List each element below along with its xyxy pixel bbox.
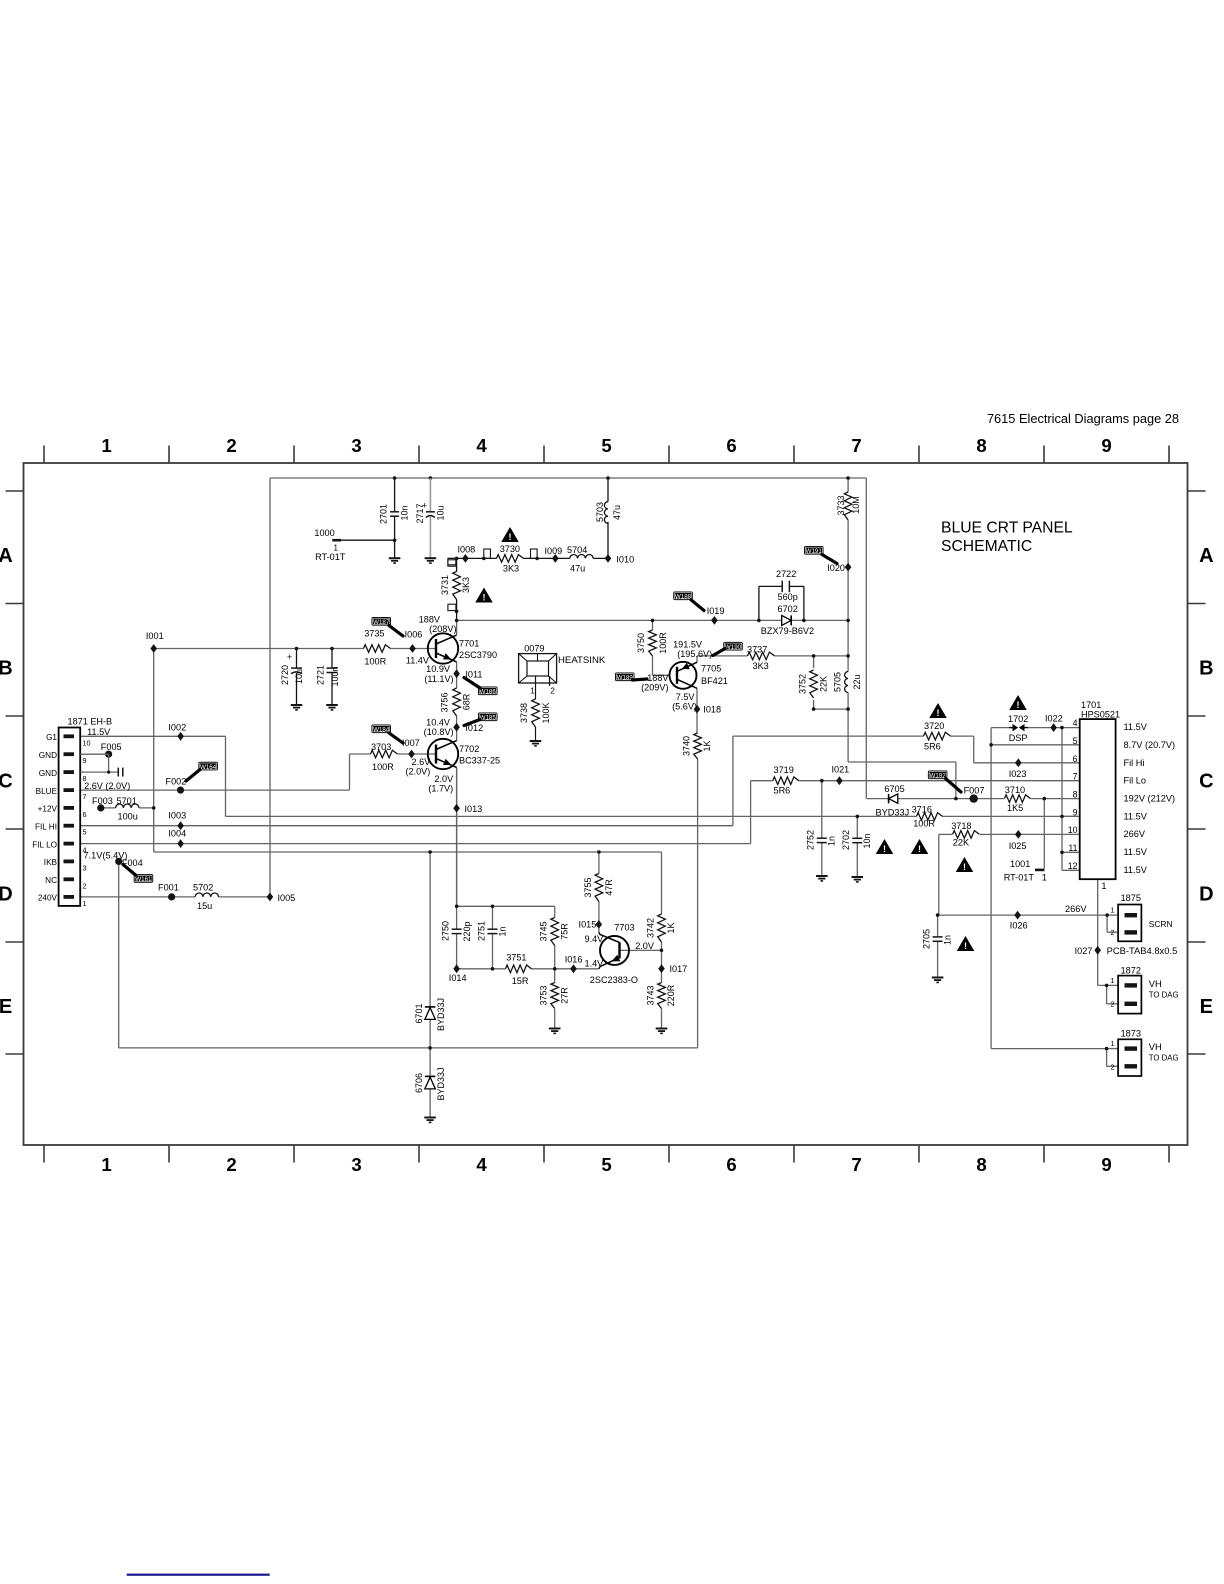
ground 3743 bbox=[656, 1028, 668, 1030]
svg-text:F002: F002 bbox=[166, 777, 187, 787]
svg-text:1n: 1n bbox=[827, 836, 837, 846]
1871 pin 3 IKB bbox=[64, 860, 75, 864]
svg-text:!: ! bbox=[1017, 700, 1020, 710]
svg-text:1K: 1K bbox=[702, 740, 712, 751]
svg-text:8: 8 bbox=[976, 1154, 986, 1175]
svg-text:W186: W186 bbox=[480, 689, 497, 696]
ground 2701 bbox=[389, 557, 401, 559]
flag W192 bbox=[928, 771, 948, 780]
inductor 5705 22u bbox=[847, 672, 850, 693]
wire 7705 emitter up bbox=[696, 656, 698, 663]
svg-text:+12V: +12V bbox=[38, 805, 58, 814]
wire BLUE row F002 bbox=[80, 789, 349, 791]
resistor 3750 100R bbox=[651, 630, 654, 656]
node I025 bbox=[1015, 830, 1022, 839]
node F005 bbox=[105, 751, 112, 758]
svg-text:22K: 22K bbox=[953, 837, 969, 847]
svg-text:SCRN: SCRN bbox=[1149, 919, 1173, 929]
svg-text:15u: 15u bbox=[197, 901, 212, 911]
resistor 3719 5R6 bbox=[773, 779, 799, 782]
svg-text:3K3: 3K3 bbox=[461, 577, 471, 593]
svg-text:RT-01T: RT-01T bbox=[315, 552, 346, 562]
resistor 3752 22K bbox=[812, 670, 815, 698]
node I020 bbox=[845, 563, 852, 572]
1701 pin 1 label bbox=[1097, 878, 1099, 880]
svg-text:2701: 2701 bbox=[378, 504, 388, 524]
jumper link b bbox=[531, 549, 538, 558]
svg-text:220p: 220p bbox=[462, 921, 472, 941]
svg-text:F003: F003 bbox=[92, 796, 113, 806]
svg-text:(209V): (209V) bbox=[641, 683, 668, 693]
svg-text:6: 6 bbox=[726, 1154, 736, 1175]
capacitor 2751 1n bbox=[488, 928, 498, 930]
wire 2752 drop from I021 rail bbox=[821, 781, 823, 839]
wire FIL HI riser bbox=[732, 736, 734, 826]
svg-text:HEATSINK: HEATSINK bbox=[558, 655, 606, 666]
svg-text:NC: NC bbox=[45, 876, 57, 885]
svg-text:6702: 6702 bbox=[778, 604, 798, 614]
svg-text:9: 9 bbox=[1101, 435, 1111, 456]
svg-text:(11.1V): (11.1V) bbox=[424, 674, 453, 684]
svg-text:7705: 7705 bbox=[701, 664, 721, 674]
node I009 bbox=[552, 554, 559, 563]
wire 2751 cap drop bbox=[492, 906, 494, 929]
svg-text:GND: GND bbox=[39, 751, 57, 760]
wire 3710 to pin8 bbox=[1031, 798, 1080, 800]
wire 7702 base row bbox=[350, 753, 437, 755]
wire 3750 drop bbox=[652, 620, 654, 675]
capacitor 2722 560p branch bbox=[757, 619, 761, 623]
node I022 bbox=[1050, 723, 1057, 732]
svg-text:1: 1 bbox=[101, 1154, 111, 1175]
svg-text:7: 7 bbox=[851, 1154, 861, 1175]
resistor 3730 3K3 bbox=[497, 557, 524, 560]
wire 240V top rail bbox=[270, 477, 866, 479]
resistor 3742 1K bbox=[660, 914, 663, 942]
node I010 bbox=[606, 556, 610, 560]
svg-text:1872: 1872 bbox=[1121, 966, 1141, 976]
svg-text:1: 1 bbox=[1111, 1039, 1115, 1048]
zener diode 6702 BZX79-B6V2 bbox=[782, 615, 792, 625]
svg-text:7701: 7701 bbox=[459, 638, 479, 648]
svg-text:1: 1 bbox=[83, 899, 87, 908]
svg-text:68R: 68R bbox=[461, 693, 471, 710]
svg-text:2702: 2702 bbox=[841, 830, 851, 850]
svg-text:2.0V: 2.0V bbox=[635, 941, 655, 951]
flag W161 bbox=[134, 874, 154, 883]
svg-text:1873: 1873 bbox=[1121, 1029, 1141, 1039]
svg-text:!: ! bbox=[963, 862, 966, 872]
svg-text:3750: 3750 bbox=[636, 633, 646, 653]
node I005 bbox=[267, 893, 274, 902]
resistor 3743 220R bbox=[660, 983, 663, 1009]
flag W191 bbox=[804, 546, 824, 555]
svg-text:3: 3 bbox=[351, 1154, 361, 1175]
flag W164 bbox=[198, 762, 218, 771]
svg-text:7.1V(5.4V): 7.1V(5.4V) bbox=[84, 851, 128, 861]
wire 3742 drop bbox=[661, 852, 663, 950]
capacitor 2720 10u bbox=[296, 649, 298, 669]
node F001 bbox=[168, 893, 175, 900]
svg-text:266V: 266V bbox=[1065, 904, 1087, 914]
svg-text:75R: 75R bbox=[560, 923, 570, 940]
wire DSP 1702 net bbox=[991, 727, 1009, 729]
flag W190 bbox=[723, 642, 743, 651]
svg-text:560p: 560p bbox=[778, 592, 798, 602]
node I012 10.4V bbox=[453, 723, 460, 732]
svg-text:W187: W187 bbox=[373, 619, 390, 626]
svg-text:7: 7 bbox=[851, 435, 861, 456]
svg-text:191.5V: 191.5V bbox=[673, 640, 703, 650]
svg-text:3: 3 bbox=[351, 435, 361, 456]
svg-text:BYD33J: BYD33J bbox=[876, 808, 910, 818]
svg-text:11.5V: 11.5V bbox=[1124, 865, 1148, 875]
node I007 bbox=[408, 750, 415, 759]
svg-text:4: 4 bbox=[476, 435, 487, 456]
svg-text:!: ! bbox=[483, 593, 486, 603]
capacitor 2721 100n bbox=[331, 649, 333, 669]
node I004 bbox=[177, 839, 184, 848]
svg-text:1n: 1n bbox=[942, 935, 952, 945]
svg-text:192V (212V): 192V (212V) bbox=[1124, 794, 1176, 804]
svg-text:(1.7V): (1.7V) bbox=[428, 784, 453, 794]
wire BLUE riser bbox=[349, 754, 351, 790]
svg-text:2: 2 bbox=[226, 435, 236, 456]
svg-text:3738: 3738 bbox=[519, 703, 529, 723]
node I003 bbox=[177, 821, 184, 830]
svg-text:100R: 100R bbox=[364, 657, 386, 667]
svg-text:15R: 15R bbox=[512, 976, 529, 986]
wire 7701-7702 emitter chain bbox=[456, 620, 458, 635]
svg-text:I026: I026 bbox=[1010, 921, 1028, 931]
flag W187 bbox=[372, 617, 392, 626]
wire 7705 base lead bbox=[653, 674, 670, 676]
flag W188 bbox=[673, 592, 693, 601]
svg-text:2720: 2720 bbox=[280, 665, 290, 685]
svg-text:2.0V: 2.0V bbox=[434, 774, 454, 784]
ground 2752 bbox=[816, 875, 828, 877]
border frame bbox=[24, 463, 1188, 1145]
wire 192V elbow bbox=[847, 709, 849, 762]
capacitor 2705 1n bbox=[933, 936, 943, 938]
svg-text:BC337-25: BC337-25 bbox=[459, 756, 500, 766]
ground 2721 bbox=[326, 704, 338, 706]
svg-text:3710: 3710 bbox=[1005, 785, 1025, 795]
svg-text:188V: 188V bbox=[647, 673, 669, 683]
resistor 3735 100R bbox=[364, 647, 391, 650]
node I017 bbox=[658, 964, 665, 973]
transistor 7702 BC337-25 bbox=[428, 739, 458, 769]
svg-text:5: 5 bbox=[601, 1154, 611, 1175]
wire pin6 line I023 bbox=[974, 762, 1080, 764]
diode 6701 BYD33J bbox=[425, 1006, 436, 1008]
svg-text:I006: I006 bbox=[405, 630, 423, 640]
svg-text:2SC3790: 2SC3790 bbox=[459, 650, 497, 660]
svg-text:BF421: BF421 bbox=[701, 676, 728, 686]
svg-text:BYD33J: BYD33J bbox=[436, 1067, 446, 1100]
svg-text:!: ! bbox=[937, 708, 940, 718]
capacitor 2701 10n bbox=[393, 476, 397, 480]
svg-text:W161: W161 bbox=[135, 876, 152, 883]
svg-text:Fil Lo: Fil Lo bbox=[1124, 776, 1146, 786]
node I026 bbox=[1014, 911, 1021, 920]
svg-text:I007: I007 bbox=[402, 738, 420, 748]
wire 3752 top tap bbox=[813, 656, 815, 668]
svg-text:11.5V: 11.5V bbox=[87, 727, 111, 737]
svg-text:1871 EH-B: 1871 EH-B bbox=[68, 717, 113, 727]
svg-text:5704: 5704 bbox=[567, 545, 587, 555]
svg-text:9: 9 bbox=[1073, 807, 1078, 817]
svg-text:VH: VH bbox=[1149, 1041, 1162, 1052]
svg-text:6701: 6701 bbox=[414, 1003, 424, 1023]
svg-text:1.4V: 1.4V bbox=[585, 959, 605, 969]
wire 3745 drop bbox=[554, 906, 556, 982]
svg-text:8.7V (20.7V): 8.7V (20.7V) bbox=[1124, 740, 1176, 750]
resistor 3733 10M bbox=[847, 492, 850, 520]
svg-text:W188: W188 bbox=[675, 594, 692, 601]
wire G1 row 11.5V bbox=[80, 735, 225, 737]
node I015 bbox=[596, 920, 603, 929]
svg-text:4: 4 bbox=[1073, 718, 1078, 728]
node I027 bbox=[1094, 946, 1101, 955]
resistor 3718 22K bbox=[953, 833, 980, 836]
resistor 3753 27R bbox=[553, 983, 556, 1009]
node I008 bbox=[462, 554, 469, 563]
svg-text:I025: I025 bbox=[1009, 841, 1027, 851]
wire 11.5V pins tie bbox=[1062, 727, 1080, 729]
wire 266V rail I026 bbox=[938, 914, 1108, 916]
wire 7703 base node 2.0V bbox=[620, 949, 662, 951]
warning triangle pair bbox=[876, 839, 894, 854]
svg-text:(5.6V): (5.6V) bbox=[672, 702, 697, 712]
wire pin10 3718 row bbox=[939, 833, 952, 835]
svg-text:W192: W192 bbox=[930, 773, 947, 780]
svg-text:5701: 5701 bbox=[117, 796, 137, 806]
resistor 3720 5R6 bbox=[924, 735, 951, 738]
svg-text:I022: I022 bbox=[1045, 713, 1063, 723]
svg-text:B: B bbox=[0, 658, 13, 680]
svg-text:3703: 3703 bbox=[371, 742, 391, 752]
svg-text:10n: 10n bbox=[399, 505, 409, 520]
svg-text:6705: 6705 bbox=[884, 784, 904, 794]
wire FIL LO row bbox=[80, 843, 750, 845]
wire +12V riser I001 bbox=[153, 649, 155, 853]
svg-text:FIL HI: FIL HI bbox=[35, 823, 57, 832]
svg-text:W189: W189 bbox=[617, 675, 634, 682]
svg-text:5R6: 5R6 bbox=[924, 742, 941, 752]
wire pin5 8.7V net bbox=[991, 744, 1080, 746]
wire I013 vertical bbox=[456, 768, 458, 907]
svg-text:11.5V: 11.5V bbox=[1124, 811, 1148, 821]
jumper link a bbox=[484, 549, 491, 558]
svg-text:3753: 3753 bbox=[539, 985, 549, 1005]
capacitor 2750 220p bbox=[452, 928, 462, 930]
svg-text:W185: W185 bbox=[480, 715, 497, 722]
svg-text:1000: 1000 bbox=[314, 528, 334, 538]
wire IKB drop from F004 bbox=[118, 861, 120, 1048]
1871 pin 5 FIL HI bbox=[64, 824, 75, 828]
svg-text:G1: G1 bbox=[46, 733, 57, 742]
svg-text:6706: 6706 bbox=[414, 1073, 424, 1093]
svg-text:W184: W184 bbox=[373, 727, 390, 734]
svg-text:C: C bbox=[0, 770, 13, 792]
node I019 bbox=[711, 616, 718, 625]
svg-text:D: D bbox=[0, 883, 13, 905]
resistor 3737 3K3 bbox=[748, 655, 775, 658]
wire 1875 pin stubs bbox=[1107, 914, 1118, 916]
svg-text:1001: 1001 bbox=[1010, 859, 1030, 869]
svg-text:3730: 3730 bbox=[500, 544, 520, 554]
wire 5705 bottom to 3752 bbox=[814, 708, 849, 710]
svg-text:11.5V: 11.5V bbox=[1124, 722, 1148, 732]
svg-text:100u: 100u bbox=[118, 812, 138, 822]
svg-text:I001: I001 bbox=[146, 631, 164, 641]
svg-text:Fil Hi: Fil Hi bbox=[1124, 758, 1145, 768]
wire I008 row bbox=[448, 557, 608, 559]
svg-text:PCB-TAB4.8x0.5: PCB-TAB4.8x0.5 bbox=[1107, 945, 1178, 956]
svg-text:DSP: DSP bbox=[1009, 733, 1028, 743]
wire 3720 to pin6 drop bbox=[973, 736, 975, 763]
svg-text:2SC2383-O: 2SC2383-O bbox=[590, 975, 638, 985]
svg-text:22u: 22u bbox=[852, 674, 862, 689]
svg-text:I005: I005 bbox=[278, 893, 296, 903]
svg-text:3735: 3735 bbox=[364, 629, 384, 639]
svg-text:I009: I009 bbox=[545, 546, 563, 556]
svg-text:1n: 1n bbox=[497, 926, 507, 936]
node F004 7.1V bbox=[115, 858, 122, 865]
node F002 bbox=[177, 787, 184, 794]
ground 2717 bbox=[425, 557, 437, 559]
svg-text:3740: 3740 bbox=[681, 736, 691, 756]
ground 2705 bbox=[932, 977, 944, 979]
svg-text:I023: I023 bbox=[1009, 769, 1027, 779]
svg-text:2: 2 bbox=[83, 881, 87, 890]
svg-text:7702: 7702 bbox=[459, 744, 479, 754]
wire 2705 drop bbox=[937, 915, 939, 937]
svg-text:2722: 2722 bbox=[776, 569, 796, 579]
wire diode chain riser bbox=[429, 852, 431, 1117]
node I013 bbox=[453, 804, 460, 813]
svg-text:F001: F001 bbox=[158, 883, 179, 893]
node I001 bbox=[150, 644, 157, 653]
resistor 3716 100R bbox=[917, 815, 943, 818]
svg-text:5: 5 bbox=[1073, 736, 1078, 746]
resistor 3755 47R bbox=[598, 874, 601, 902]
svg-text:!: ! bbox=[964, 941, 967, 951]
svg-text:3745: 3745 bbox=[539, 921, 549, 941]
transistor 7701 2SC3790 bbox=[428, 633, 458, 663]
svg-text:I013: I013 bbox=[465, 804, 483, 814]
svg-text:6: 6 bbox=[726, 435, 736, 456]
svg-text:7: 7 bbox=[83, 792, 87, 801]
capacitor 2717 10u bbox=[429, 476, 433, 480]
svg-text:I008: I008 bbox=[458, 544, 476, 554]
svg-text:9: 9 bbox=[83, 756, 87, 765]
svg-text:2: 2 bbox=[550, 687, 555, 696]
svg-text:A: A bbox=[1199, 545, 1213, 567]
svg-text:I027: I027 bbox=[1075, 946, 1093, 956]
ground 2702 bbox=[852, 876, 864, 878]
svg-text:2: 2 bbox=[226, 1154, 236, 1175]
svg-text:220R: 220R bbox=[666, 984, 676, 1006]
resistor 3756 68R bbox=[455, 688, 458, 716]
wire 1872 pin2 stub bbox=[1106, 985, 1108, 1003]
wire 1701 pin1 drop bbox=[1097, 879, 1099, 985]
svg-text:266V: 266V bbox=[1124, 829, 1146, 839]
svg-text:BZX79-B6V2: BZX79-B6V2 bbox=[761, 626, 814, 636]
svg-text:F005: F005 bbox=[101, 742, 122, 752]
wire 6705 F007 row bbox=[867, 798, 1004, 800]
inductor 5704 47u bbox=[570, 557, 593, 560]
svg-text:100R: 100R bbox=[658, 632, 668, 654]
ground 2720 bbox=[291, 704, 303, 706]
wire 7701 base rail bbox=[154, 648, 436, 650]
ground 6706 bbox=[424, 1117, 436, 1119]
wire 2702 drop bbox=[856, 816, 858, 838]
wire 240V row bbox=[80, 896, 270, 898]
svg-text:2721: 2721 bbox=[315, 665, 325, 685]
svg-text:1875: 1875 bbox=[1121, 893, 1141, 903]
jumper link left bbox=[448, 558, 456, 564]
wire +12V rail to 5701 bbox=[101, 807, 154, 809]
svg-text:2752: 2752 bbox=[806, 830, 816, 850]
svg-text:I016: I016 bbox=[565, 955, 583, 965]
svg-text:2: 2 bbox=[1111, 1000, 1115, 1009]
svg-text:100K: 100K bbox=[541, 702, 551, 723]
svg-text:3731: 3731 bbox=[440, 575, 450, 595]
svg-text:2.6V (2.0V): 2.6V (2.0V) bbox=[84, 781, 130, 791]
svg-text:1K5: 1K5 bbox=[1007, 803, 1023, 813]
svg-text:3751: 3751 bbox=[506, 952, 526, 962]
resistor 3703 100R bbox=[371, 753, 398, 756]
diode 6705 BYD33J bbox=[889, 794, 898, 803]
svg-text:HPS0521: HPS0521 bbox=[1081, 710, 1120, 720]
svg-text:GND: GND bbox=[39, 769, 57, 778]
svg-text:3755: 3755 bbox=[583, 877, 593, 897]
svg-text:3K3: 3K3 bbox=[753, 661, 769, 671]
resistor 3751 15R bbox=[506, 967, 532, 970]
svg-text:1K: 1K bbox=[666, 922, 676, 933]
wire top-rail right riser to 6705 bbox=[865, 478, 867, 799]
svg-text:I014: I014 bbox=[449, 973, 467, 983]
svg-text:3737: 3737 bbox=[747, 644, 767, 654]
1871 pin 2 NC bbox=[64, 877, 75, 881]
svg-text:3742: 3742 bbox=[645, 918, 655, 938]
svg-text:I017: I017 bbox=[670, 964, 688, 974]
inductor 5702 15u bbox=[195, 896, 218, 899]
svg-text:W190: W190 bbox=[725, 644, 742, 651]
resistor 3740 1K bbox=[696, 733, 699, 759]
svg-text:I010: I010 bbox=[616, 555, 634, 565]
svg-text:11: 11 bbox=[1068, 843, 1077, 853]
svg-text:RT-01T: RT-01T bbox=[1004, 872, 1035, 882]
wire 8.7V to 1873 bbox=[991, 1048, 1107, 1050]
svg-text:3718: 3718 bbox=[951, 821, 971, 831]
spark gap 1000 RT-01T bbox=[332, 539, 341, 542]
wire x848 vertical 3733/5705 bbox=[847, 478, 849, 709]
node I011 10.9V bbox=[453, 669, 460, 678]
svg-text:3719: 3719 bbox=[774, 765, 794, 775]
svg-text:IKB: IKB bbox=[44, 858, 58, 867]
svg-text:6: 6 bbox=[1073, 754, 1078, 764]
svg-text:!: ! bbox=[918, 844, 921, 854]
wire pin8 tap to RT-01T bbox=[1043, 799, 1045, 869]
svg-text:BLUE CRT PANEL: BLUE CRT PANEL bbox=[941, 520, 1073, 537]
svg-text:VH: VH bbox=[1149, 978, 1162, 989]
svg-text:5: 5 bbox=[83, 828, 87, 837]
svg-text:3K3: 3K3 bbox=[503, 564, 519, 574]
inductor 5703 47u bbox=[606, 476, 610, 480]
